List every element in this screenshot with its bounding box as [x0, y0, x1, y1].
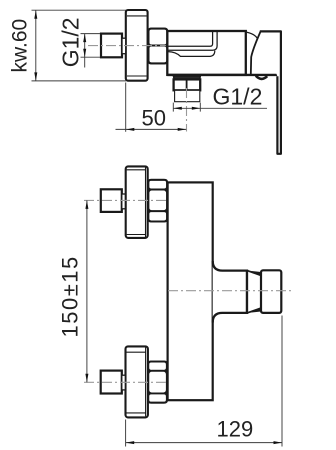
outlet thread (top view) — [175, 90, 200, 101]
handle head transition arc (top view) — [247, 32, 258, 38]
centreline of inlet (top view) — [88, 45, 166, 47]
centreline handle (bottom view) — [168, 290, 294, 292]
outlet chamfer collar (top view) — [173, 76, 200, 79]
handle lever (top view) — [260, 31, 281, 153]
handle front slant edge (top view) — [251, 31, 261, 74]
centreline lower inlet (bottom view) — [84, 381, 167, 383]
centreline upper inlet (bottom view) — [84, 199, 167, 201]
svg-text:G1/2: G1/2 — [58, 17, 84, 67]
dimension kw.60 — [32, 10, 127, 81]
outlet hex centre facet line — [186, 79, 188, 90]
handle cone dark wedge bottom — [251, 308, 262, 313]
upper hex nut (bottom view) — [148, 180, 167, 222]
lower connector neck (bottom view) — [122, 375, 126, 390]
svg-text:kw.60: kw.60 — [9, 19, 32, 73]
upper connector neck (bottom view) — [122, 194, 126, 209]
faucet body (bottom view) — [168, 182, 213, 400]
connector neck (top view) — [122, 38, 126, 54]
dimension 129 — [126, 316, 282, 447]
svg-text:129: 129 — [217, 416, 254, 441]
svg-text:150±15: 150±15 — [58, 255, 83, 337]
svg-text:50: 50 — [142, 106, 166, 131]
body internal waterway lines (top view) — [168, 31, 218, 56]
upper wall plate (bottom view) — [126, 166, 148, 238]
handle cone slant top (bottom view) — [247, 271, 261, 276]
dimension G1/2 inlet — [81, 34, 101, 68]
cartridge collar protrusion (bottom view) — [213, 261, 247, 323]
inlet connector (top view) — [101, 34, 122, 58]
body bottom edge extended under handle head — [167, 74, 277, 76]
handle head underside arc (top view) — [256, 76, 267, 79]
lower wall plate (bottom view) — [126, 346, 148, 417]
dimension G1/2 outlet — [173, 103, 267, 112]
handle cone dark wedge top — [251, 271, 262, 276]
lower hex nut (bottom view) — [148, 362, 167, 403]
faucet body (top view) — [167, 31, 246, 75]
svg-text:G1/2: G1/2 — [213, 83, 263, 109]
outlet hex (top view) — [174, 79, 201, 90]
lower inlet connector (bottom view) — [101, 371, 122, 394]
dimension 150±15 — [86, 200, 88, 382]
handle grip end (bottom view) — [261, 270, 281, 313]
hex nut (top view) — [149, 29, 168, 64]
dimension 50 — [116, 83, 187, 132]
upper inlet connector (bottom view) — [101, 189, 122, 212]
collar end vertical edge — [246, 271, 248, 313]
wall plate (top view) — [126, 10, 148, 81]
centreline of outlet (top view) — [186, 88, 188, 132]
handle cone slant bottom (bottom view) — [247, 308, 261, 313]
